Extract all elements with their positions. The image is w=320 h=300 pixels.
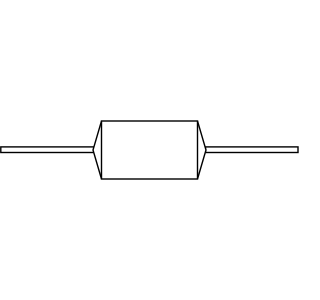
- wire lead left: [1, 147, 94, 153]
- component body: [102, 121, 198, 179]
- component body end cap right: [198, 121, 207, 179]
- component body end cap left: [93, 121, 102, 179]
- wire lead right: [206, 147, 299, 153]
